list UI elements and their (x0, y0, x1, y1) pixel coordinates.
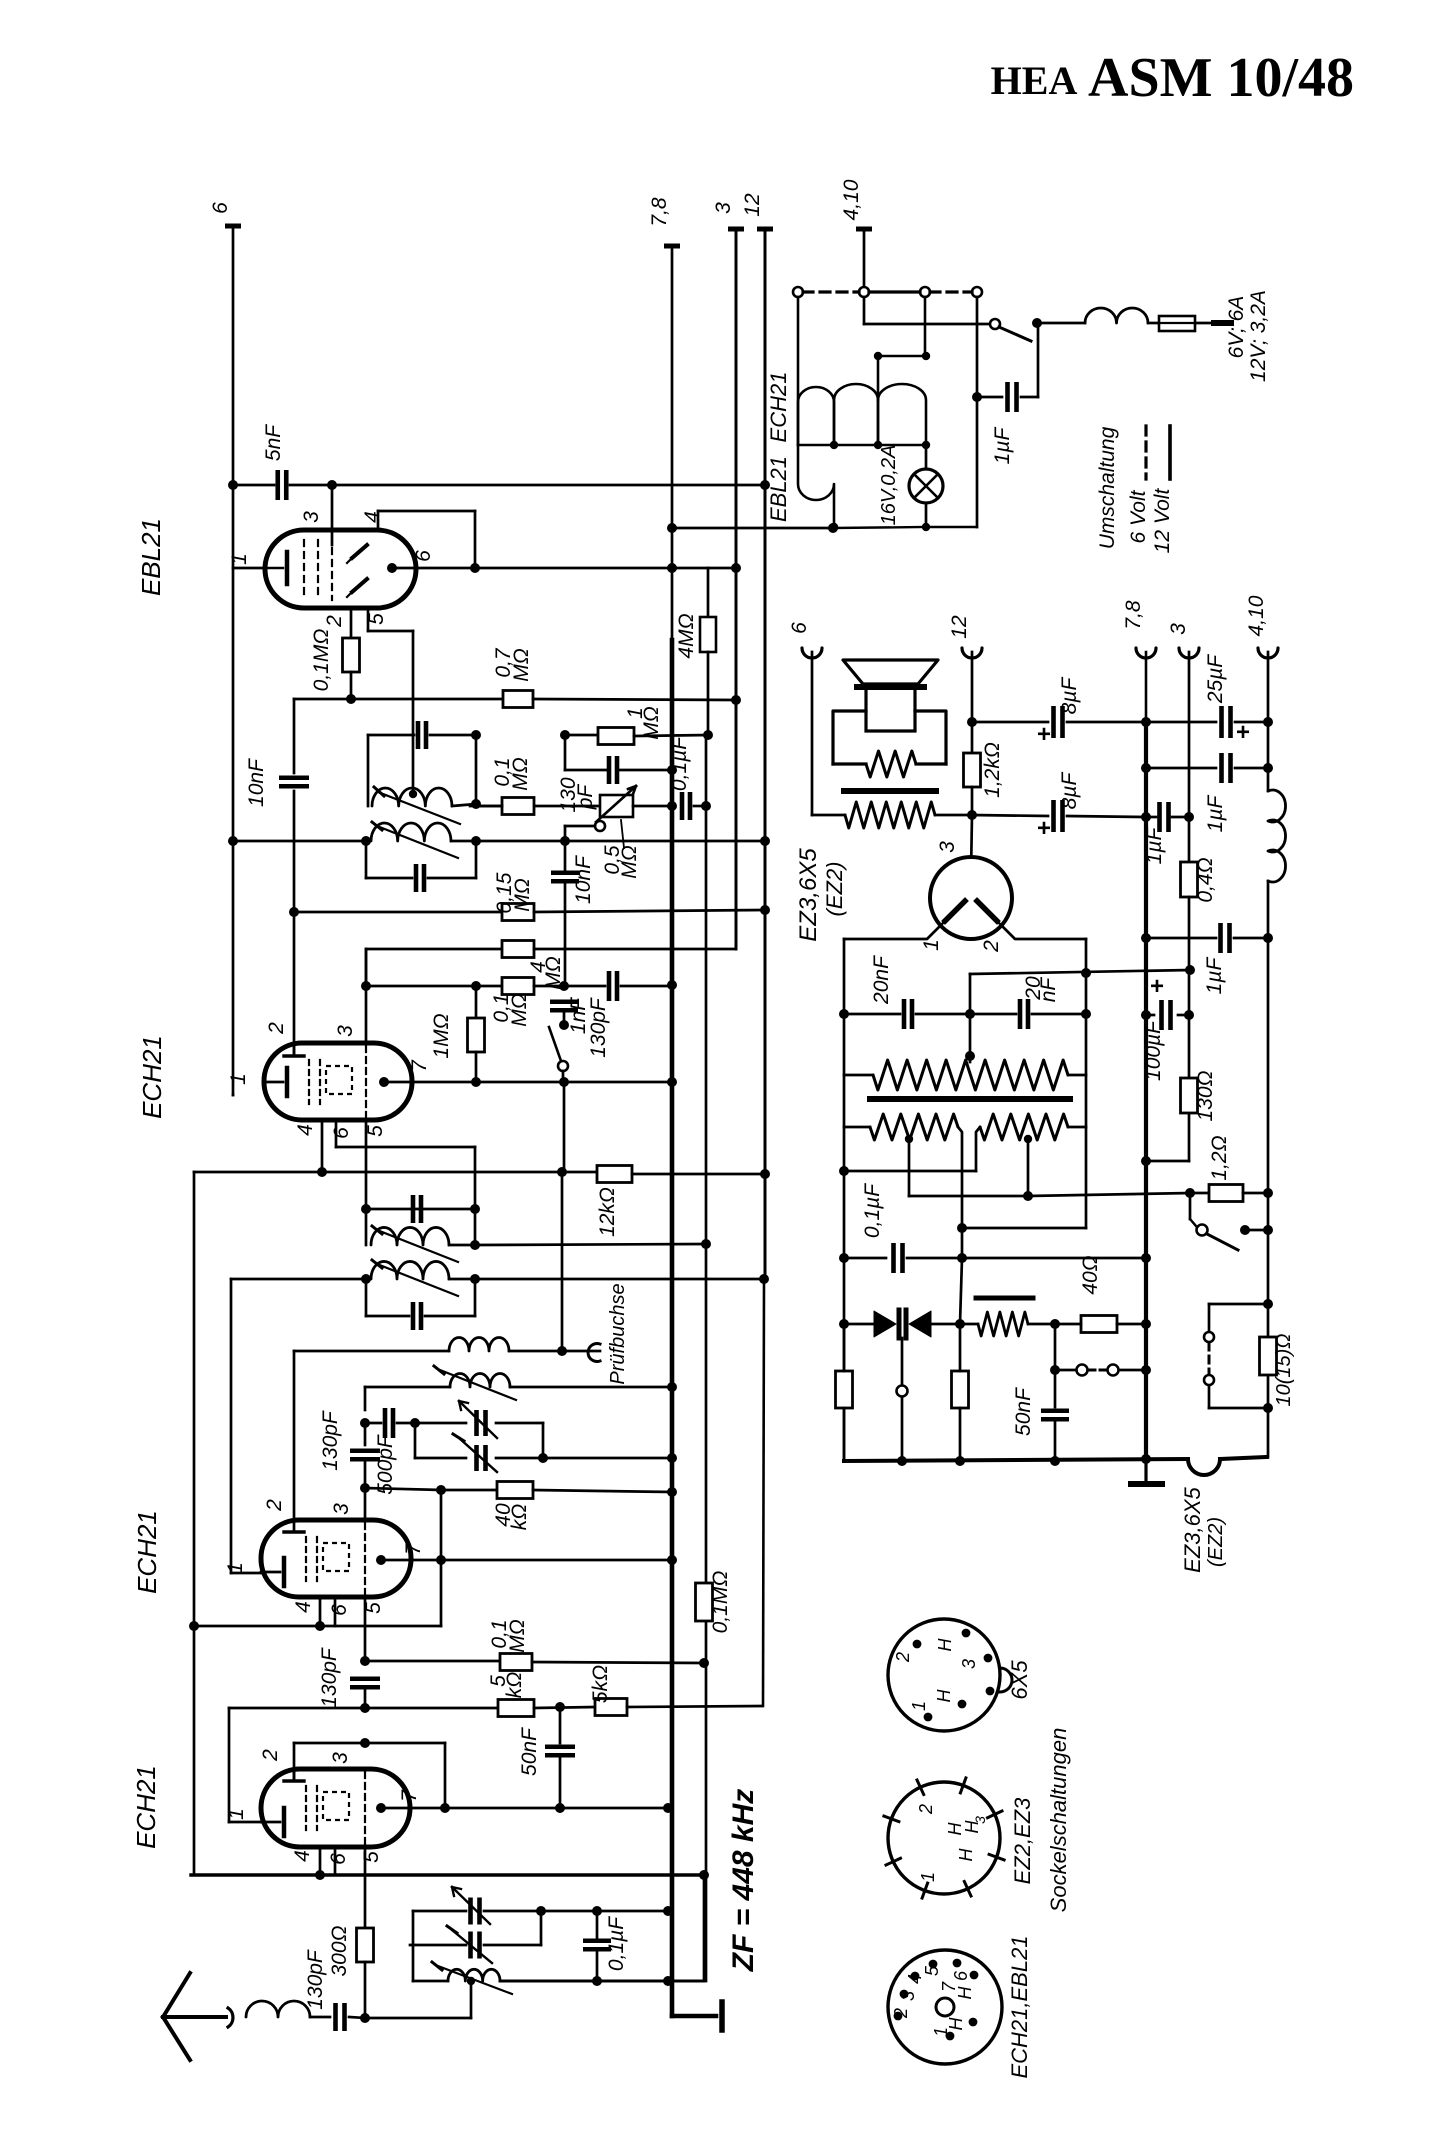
IF1 sec T mark (372, 822, 382, 830)
junction x672 y1387 (667, 1382, 677, 1392)
switch lever (x564) (549, 1027, 561, 1061)
svg-text:6: 6 (788, 622, 811, 634)
wire box right side (474, 511, 477, 568)
wire lzz left (844, 1126, 870, 1129)
wire x1086 upper (1085, 939, 1088, 974)
svg-text:ECH21: ECH21 (137, 1035, 167, 1119)
wire t3 pin6 down (334, 1597, 337, 1626)
svg-text:130Ω: 130Ω (1194, 1070, 1217, 1121)
wire row y1662 b (532, 1662, 704, 1663)
wire EBL21 pin1 (233, 567, 265, 570)
svg-text:MΩ: MΩ (510, 648, 533, 681)
wire net-6 vertical x=233 (232, 226, 235, 1095)
svg-text:40Ω: 40Ω (1079, 1255, 1102, 1294)
ground stem right (1144, 1459, 1147, 1480)
wire EBL21 pin5 c (412, 631, 415, 794)
wire c3 down (924, 297, 927, 356)
wire t4 pin4 down (319, 1847, 322, 1875)
junction x1190 y1193 (1185, 1188, 1195, 1198)
IF1 loop top b (430, 734, 476, 737)
wire row y986 a (366, 985, 476, 988)
junction x294 y912 (289, 907, 299, 917)
IF2 loop2 left (365, 1279, 368, 1316)
wire wiper stub (969, 1056, 972, 1062)
solid link (869, 290, 920, 293)
resistor (right leg) (952, 1371, 969, 1408)
junction x1189 y817 (1184, 812, 1194, 822)
variable capacitor (osc range) (474, 1410, 479, 1436)
IF1 coil to right (452, 804, 476, 806)
resistor 40kOhm (497, 1482, 533, 1499)
wire EBL21 pin3 grid (331, 485, 334, 545)
junction x1146 y817 (1141, 812, 1151, 822)
svg-text:5: 5 (922, 1965, 942, 1976)
capacitor 100uF (1159, 1000, 1164, 1030)
IF2 secondary coil (371, 1261, 449, 1279)
wire x565 to 130pF (564, 735, 567, 770)
resistor 0,15MOhm (502, 904, 534, 921)
junction x597 y1911 (592, 1906, 602, 1916)
ECH21-4 grid dashed (364, 1772, 366, 1844)
wire y770 left (565, 769, 607, 772)
junction x233 y841 (228, 836, 238, 846)
resistor 300Ohm (357, 1928, 374, 1962)
wire 50nF stem (1054, 1370, 1057, 1407)
junction x844 y1014 (839, 1009, 849, 1019)
terminal 7,8 arc (1136, 648, 1156, 658)
resistor (left leg) (836, 1371, 853, 1408)
mains switch lever (999, 327, 1031, 341)
wire below contact (901, 1397, 904, 1461)
wire t4 pin5 to 300Ohm (364, 1847, 367, 1928)
svg-text:1: 1 (931, 2027, 951, 2037)
junction x668 y1808 (663, 1803, 673, 1813)
wire x231 vertical (230, 1279, 233, 1573)
svg-text:7: 7 (408, 1059, 431, 1072)
IF2 loop2 right (474, 1279, 477, 1316)
junction x672 y806 (667, 801, 677, 811)
svg-text:2: 2 (265, 1022, 288, 1035)
svg-text:12V; 3,2A: 12V; 3,2A (1247, 290, 1270, 382)
svg-text:6: 6 (330, 1127, 353, 1139)
variable capacitor (input) (468, 1898, 473, 1925)
svg-text:300Ω: 300Ω (328, 1925, 351, 1976)
heater feed riser (877, 356, 880, 400)
wiper dot right (1024, 1135, 1032, 1143)
capacitor 500pF (383, 1408, 388, 1438)
svg-text:MΩ: MΩ (509, 757, 532, 790)
junction x1086 y1014 (1081, 1009, 1091, 1019)
junction x736 y700 (731, 695, 741, 705)
junction x476 y804 (471, 799, 481, 809)
wire x565 lower (564, 883, 567, 986)
junction x1268 y1230 (1263, 1225, 1273, 1235)
wire antenna to 130pF (310, 2016, 330, 2019)
junction x972 y815 (967, 810, 977, 820)
junction switch dot (1032, 318, 1042, 328)
junction x1146 y1161 (1141, 1156, 1151, 1166)
junction x1268 y1408 (1263, 1403, 1273, 1413)
wire x564 seg b (563, 1082, 566, 1172)
capacitor 10nF (x565) (551, 870, 579, 875)
wire row y1171 (844, 1170, 976, 1173)
dashed link 6V b (930, 290, 972, 293)
terminal 4,10 arc (1258, 648, 1278, 658)
svg-text:nF: nF (1037, 977, 1060, 1003)
var cap row top b (496, 1422, 543, 1425)
tube ECH21 (2nd stage) envelope (264, 1043, 412, 1120)
wire net-12 vertical upper (764, 229, 767, 1280)
svg-text:3: 3 (898, 1991, 918, 2001)
junction x668 y1911 (663, 1906, 673, 1916)
socket center spigot (936, 1998, 954, 2016)
capacitor 20nF (2) (1018, 999, 1023, 1029)
wire 7,8 to heater chain y528 (672, 527, 833, 530)
junction x365 y1423 (360, 1418, 370, 1428)
transformer core bar (844, 788, 936, 794)
wire x445 vertical (444, 1743, 447, 1808)
wire row y1707 b (534, 1707, 595, 1708)
wire row y1626 (194, 1625, 441, 1628)
svg-text:1nF: 1nF (567, 997, 590, 1034)
wire x475 seg (474, 1147, 477, 1209)
heater arch 1 (798, 387, 834, 445)
junction x562 y1172 (557, 1167, 567, 1177)
IF2 secondary capacitor (411, 1302, 416, 1330)
junction x844 y1324 (839, 1319, 849, 1329)
tank mid row a (410, 1944, 466, 1947)
capacitor 10nF (x294) (279, 775, 309, 780)
var cap loop left (414, 1423, 417, 1458)
junction x764 y1279 (759, 1274, 769, 1284)
Pruefbuchse socket arc (588, 1344, 600, 1362)
wire net-4,10 right lower (1267, 881, 1270, 1457)
tank left lower (412, 1945, 415, 1981)
wire row y986 c (621, 985, 672, 988)
junction x441 y1560 (436, 1555, 446, 1565)
dashed link vertical (1208, 1343, 1211, 1374)
IF1 sec coil arrow (377, 826, 458, 858)
terminal 12 tick (757, 227, 773, 232)
var cap row top a (415, 1422, 466, 1425)
resistor 0,1MOhm (y986) (502, 978, 534, 995)
wire 300Ohm to y2018 (364, 1962, 367, 2018)
junction x365 y1488 (360, 1483, 370, 1493)
svg-text:3: 3 (334, 1025, 357, 1037)
IF2 sec arrow (377, 1264, 458, 1296)
wire rzz left down (976, 1127, 980, 1171)
socket 6X5 (888, 1619, 1000, 1731)
wire left branch lower (1208, 1386, 1211, 1408)
wire t3 pin4 down (319, 1597, 322, 1626)
input coil arrow (438, 1966, 512, 1994)
mains switch contact (990, 319, 1000, 329)
svg-text:2: 2 (916, 1804, 936, 1815)
ECH21-3 grid dashed (364, 1523, 366, 1595)
wire 10Ohm bottom (1209, 1407, 1268, 1410)
legend solid sample (1168, 426, 1172, 479)
svg-text:1: 1 (909, 1701, 929, 1711)
junction x194 y1626 (189, 1621, 199, 1631)
terminal 4,10 tick (856, 227, 872, 232)
capacitor 1uF (1) (1219, 753, 1224, 783)
wire ECH21-2 pin4 down (321, 1120, 324, 1172)
wire row y1351 left (294, 1350, 449, 1353)
svg-text:7,8: 7,8 (648, 197, 671, 227)
svg-text:H: H (956, 1848, 976, 1862)
wire net-3 right lower (1188, 897, 1191, 1161)
svg-text:5nF: 5nF (262, 424, 285, 461)
junction x672 y1082 (667, 1077, 677, 1087)
junction x960 y1461 (955, 1456, 965, 1466)
svg-text:8µF: 8µF (1058, 677, 1081, 715)
wire 50nF stem top (559, 1707, 562, 1743)
wire EBL21 pin5 b (368, 630, 413, 633)
junction x765 y485 (760, 480, 770, 490)
junction x476 y986 (471, 981, 481, 991)
wire switch to 4,10 (1245, 1229, 1268, 1232)
wire x970 vertical (969, 974, 972, 1056)
IF1 coil arrow (378, 792, 460, 824)
IF1 loop top a (368, 734, 414, 737)
ECH21-2 grid line dashed (365, 1046, 367, 1118)
svg-text:H: H (934, 1689, 954, 1703)
wire row y938 (1146, 937, 1216, 940)
terminal 12 arc (962, 648, 982, 658)
capacitor 50nF (right) (1041, 1408, 1069, 1413)
resistor zigzag (right) (980, 1114, 1068, 1140)
capacitor 1uF (heater) (1005, 382, 1010, 412)
isolation bar (870, 1096, 1070, 1102)
fuse center line (1159, 322, 1195, 324)
svg-text:6: 6 (951, 1970, 971, 1981)
junction x543 y1458 (538, 1453, 548, 1463)
capacitor 1uF (3) (1218, 923, 1223, 953)
EBL21 diode plates (352, 545, 367, 558)
resistor 1MOhm (y735) (598, 728, 634, 745)
ground bar (719, 2002, 725, 2030)
trimmer arrow (452, 1930, 492, 1963)
svg-text:MΩ: MΩ (511, 878, 534, 911)
wire switch to coil (1037, 322, 1085, 325)
tank top row a (413, 1910, 466, 1913)
wire net-7,8 vertical upper (671, 246, 674, 640)
junction x476 y735 (471, 730, 481, 740)
junction x668 y1981 (663, 1976, 673, 1986)
wire tap to switch (864, 323, 988, 326)
wire pot right (1068, 1074, 1086, 1077)
resistor 1,2kOhm (964, 753, 981, 787)
wire EBL21 pin6 row y568 (392, 567, 736, 570)
wire 1uF up to switch (1037, 323, 1040, 397)
svg-text:25µF: 25µF (1204, 654, 1227, 704)
junction x1146 y1258 (1141, 1253, 1151, 1263)
wire row y1490 a (365, 1488, 441, 1490)
resistor 5kOhm (2) (595, 1699, 627, 1716)
ECH21-2 anode dot (379, 1077, 389, 1087)
svg-text:4: 4 (361, 511, 384, 523)
wire row y1875 (191, 1873, 704, 1876)
svg-text:12kΩ: 12kΩ (596, 1187, 619, 1237)
svg-text:20nF: 20nF (870, 955, 893, 1005)
wire x1055 seg (1054, 1324, 1057, 1370)
resistor 0,1MOhm (y806) (502, 798, 534, 815)
svg-text:(EZ2): (EZ2) (1205, 1517, 1227, 1567)
capacitor 8uF (1) (1051, 706, 1056, 738)
junction x476 y1082 (471, 1077, 481, 1087)
output transformer secondary (845, 802, 935, 828)
svg-text:+: + (1150, 973, 1164, 1000)
wire from tap down (863, 297, 866, 324)
switch circle (1,2Ohm) (1197, 1225, 1208, 1236)
tube ECH21 (3rd stage) envelope (261, 1520, 411, 1597)
capacitor 5nF (275, 470, 280, 500)
wire row y1490 b (533, 1490, 672, 1492)
trimmer T mark (447, 1926, 457, 1933)
heater EBL21 meander (798, 445, 834, 527)
svg-text:1µF: 1µF (991, 427, 1014, 465)
IF2 T mark (372, 1226, 382, 1234)
junction x565 y841 (560, 836, 570, 846)
svg-text:3: 3 (1167, 623, 1190, 635)
IF1 primary capacitor (416, 721, 421, 749)
wire row y1228 (962, 1227, 1086, 1230)
wire bottom row y1460 (844, 1459, 1188, 1461)
svg-text:3: 3 (300, 511, 323, 523)
wire heater bottom row (833, 527, 926, 528)
EZ diode plates (945, 901, 965, 921)
junction wiper y1056 (965, 1051, 975, 1061)
junction x320 y1626 (315, 1621, 325, 1631)
capacitor 1uF (2) (1157, 802, 1162, 832)
junction x564 y1025 (559, 1020, 569, 1030)
IF2 loop2 bottom a (366, 1315, 409, 1318)
wire 20nF row b (916, 1013, 1016, 1016)
svg-text:1: 1 (225, 1808, 248, 1820)
IF2 loop1 top (366, 1208, 475, 1211)
wire x365 seg (364, 1387, 367, 1410)
junction x475 y1245 (470, 1240, 480, 1250)
fuse (1159, 316, 1195, 331)
IF2 loop2 bottom b (425, 1315, 475, 1318)
wire EZ pin2 (1002, 926, 1086, 939)
svg-text:1: 1 (227, 1073, 250, 1085)
wire IF1 to 0,1M (476, 805, 502, 808)
resistor 0,4Ohm (1181, 862, 1198, 897)
wire 4M stem bottom (707, 652, 710, 735)
wire row y1245 to x706 (475, 1244, 706, 1245)
svg-text:MΩ: MΩ (508, 993, 531, 1026)
svg-text:130pF: 130pF (318, 1647, 341, 1708)
svg-text:6 Volt: 6 Volt (1127, 489, 1150, 543)
svg-text:5: 5 (364, 1125, 387, 1137)
speaker voice coil box (866, 689, 915, 731)
junction x1055 y1370 (1050, 1365, 1060, 1375)
switch contact (x564) (558, 1061, 568, 1071)
wire diode center down (901, 1338, 904, 1385)
junction x564 y986 (559, 981, 569, 991)
wire wiper to x565 (565, 825, 595, 828)
wire fuse out (1195, 322, 1214, 325)
svg-text:7,8: 7,8 (1122, 600, 1145, 630)
svg-text:3: 3 (712, 202, 735, 214)
wire row y949 left (366, 948, 502, 951)
junction x366 y841 (361, 836, 371, 846)
junction x1268 y1193 (1263, 1188, 1273, 1198)
input coil tap dot (467, 1977, 475, 1985)
svg-text:2: 2 (263, 1499, 286, 1512)
wire 4M stem top (707, 568, 710, 617)
wire row y841 right (476, 840, 765, 843)
wire 50nF stem bottom (559, 1757, 562, 1808)
svg-text:12: 12 (948, 615, 971, 639)
junction x977 y397 (972, 392, 982, 402)
svg-text:2: 2 (980, 940, 1003, 953)
svg-text:6: 6 (412, 550, 435, 562)
wire row y1662 a (365, 1660, 500, 1663)
junction x365 y2018 (360, 2013, 370, 2023)
IF2 loop1 left (365, 1209, 368, 1245)
wire 4,10 to heater chain (863, 229, 866, 292)
svg-text:130pF: 130pF (319, 1410, 342, 1471)
switch circle b (1108, 1365, 1119, 1376)
wire right side heater box (976, 297, 979, 527)
svg-text:2: 2 (891, 2008, 911, 2019)
svg-text:4MΩ: 4MΩ (675, 613, 698, 658)
wire row y949 right (534, 948, 736, 951)
capacitor 130pF (osc) (350, 1448, 380, 1453)
wiper dot left (905, 1135, 913, 1143)
padder T mark (453, 1434, 464, 1441)
capacitor 0,1uF (y806) (680, 792, 685, 820)
switch circle a (1077, 1365, 1088, 1376)
field coil box (833, 711, 946, 764)
junction x475 y1279 (470, 1274, 480, 1284)
junction x1190 y970 (1185, 965, 1195, 975)
heater ECH21 meander (797, 297, 800, 445)
junction x962 y1228 (957, 1223, 967, 1233)
junction x320 y1875 (315, 1870, 325, 1880)
svg-text:3: 3 (959, 1659, 979, 1669)
wire 20nF row c (1032, 1013, 1086, 1016)
terminal 6 arc (speaker) (802, 648, 822, 658)
RF choke coil (1085, 308, 1148, 323)
junction x332 y485 (327, 480, 337, 490)
capacitor 20nF (1) (902, 999, 907, 1029)
variable capacitor (trimmer) (468, 1932, 473, 1959)
wire x366 seg a (365, 949, 368, 986)
svg-text:5: 5 (360, 1851, 383, 1863)
svg-text:1,2kΩ: 1,2kΩ (981, 742, 1004, 798)
tank bottom a (413, 1980, 448, 1983)
osc coil arrow (440, 1370, 516, 1400)
heater arch 3 (878, 384, 926, 445)
svg-text:EZ3,6X5: EZ3,6X5 (795, 848, 822, 942)
var cap row bottom a (415, 1457, 466, 1460)
resistor 130Ohm (1181, 1078, 1198, 1113)
junction x736 y568 (731, 563, 741, 573)
wire row y2018 (365, 2017, 471, 2020)
IF2 primary capacitor (411, 1195, 416, 1223)
svg-text:4: 4 (292, 1601, 315, 1613)
svg-text:100µF: 100µF (1142, 1020, 1165, 1081)
ECH21-4 anode dot (376, 1803, 386, 1813)
wire pin7 to x476 (384, 1081, 476, 1084)
wire 20nF row a (844, 1013, 900, 1016)
capacitor 130pF (t3 cathode) (350, 1676, 380, 1681)
svg-text:EBL21: EBL21 (136, 518, 166, 596)
svg-text:0,1µF: 0,1µF (861, 1183, 884, 1238)
